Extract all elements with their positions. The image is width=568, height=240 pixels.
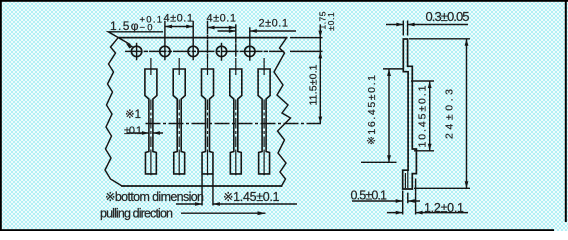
svg-text:±0.1: ±0.1: [124, 125, 142, 137]
svg-text:±0.1: ±0.1: [326, 12, 336, 31]
svg-text:0.5±0.1: 0.5±0.1: [351, 189, 388, 203]
svg-text:※1.45±0.1: ※1.45±0.1: [223, 190, 280, 204]
svg-text:1.2±0.1: 1.2±0.1: [424, 201, 464, 215]
svg-text:11.5±0.1: 11.5±0.1: [308, 64, 320, 105]
svg-text:※16.45±0.1: ※16.45±0.1: [366, 75, 378, 145]
svg-text:※1: ※1: [125, 109, 141, 121]
svg-text:0.3±0.05: 0.3±0.05: [426, 9, 470, 24]
svg-text:1.5φ: 1.5φ: [110, 19, 139, 33]
svg-text:4±0.1: 4±0.1: [164, 12, 194, 24]
svg-text:※bottom dimension: ※bottom dimension: [105, 190, 204, 204]
svg-text:2±0.1: 2±0.1: [259, 17, 289, 29]
svg-text:4±0.1: 4±0.1: [207, 12, 237, 24]
svg-text:10.45±0.1: 10.45±0.1: [417, 85, 429, 147]
svg-text:pulling direction: pulling direction: [100, 207, 173, 221]
